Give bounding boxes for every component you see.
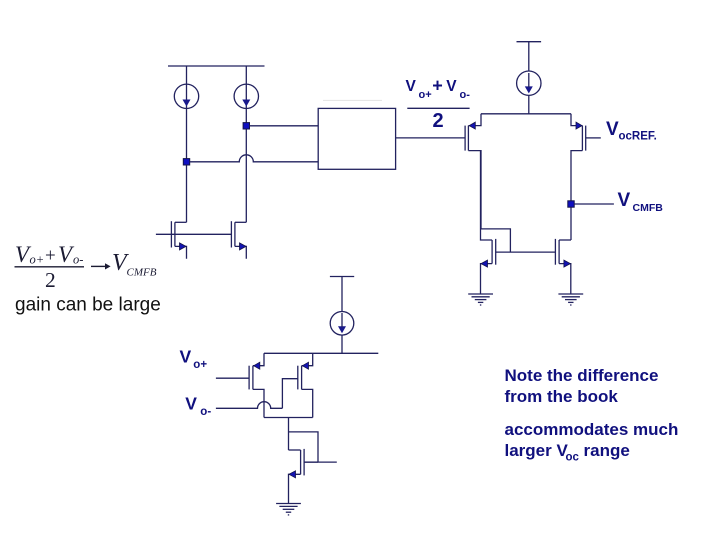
formula fraction bar	[15, 266, 85, 268]
svg-text:o-: o-	[200, 406, 211, 418]
transistor M6 drain lead	[559, 239, 571, 241]
transistor M6 source arrow	[564, 260, 571, 267]
wire VDD T-bar middle circuit	[330, 277, 354, 312]
transistor M2 gate bar	[230, 221, 232, 247]
wire M4 gate to VocREF	[586, 137, 601, 139]
svg-text:V: V	[180, 346, 192, 366]
transistor M4 source arrow	[576, 122, 582, 129]
wire node B to box lower input with hop over right branch	[190, 155, 319, 162]
wire shared gate line M1 M2	[156, 233, 232, 235]
wire follower drain rail	[264, 417, 313, 419]
wire Vo- input with hop over M7 drain	[216, 402, 283, 409]
transistor M6 source lead	[559, 264, 571, 294]
wire shared gate line M5 M6	[496, 251, 556, 253]
wire diff pair source rail	[481, 113, 571, 115]
transistor M7 drain lead	[253, 389, 264, 417]
ground G1	[468, 294, 493, 305]
transistor M8 source lead	[302, 353, 313, 365]
wire I4 to follower rail	[341, 335, 343, 353]
transistor M7 source arrow	[254, 362, 260, 369]
ground G3	[276, 504, 301, 515]
svg-text:+: +	[45, 246, 56, 267]
current source I3	[517, 71, 541, 95]
transistor M3 source arrow	[469, 122, 475, 129]
faint artifact line above box	[323, 99, 382, 101]
svg-text:o-: o-	[73, 253, 83, 267]
formula arrow	[91, 263, 111, 269]
transistor M5 gate bar	[495, 239, 497, 265]
transistor M1 source arrow	[180, 243, 187, 250]
wire node A to averaging box top input	[250, 125, 319, 127]
wire box output to M3 gate	[396, 137, 466, 139]
transistor M9 channel	[300, 450, 302, 474]
transistor M7 gate bar	[248, 366, 250, 390]
svg-text:V: V	[606, 119, 619, 140]
wire follower source rail	[264, 352, 378, 354]
transistor M5 channel	[491, 240, 493, 264]
transistor M4 drain lead	[571, 151, 582, 240]
label VocREF	[606, 119, 657, 143]
transistor M9 gate bar	[303, 449, 305, 476]
label fraction numerator Vo+ + Vo-	[406, 76, 471, 102]
transistor M1 source lead	[175, 246, 187, 258]
svg-text:V: V	[618, 190, 631, 211]
wire rail to M9 drain	[288, 418, 290, 451]
transistor M5 drain lead	[481, 151, 493, 240]
node B junction square	[183, 159, 189, 165]
transistor M9 source arrow	[289, 471, 296, 478]
transistor M5 source lead	[481, 264, 493, 294]
svg-text:V: V	[406, 78, 417, 95]
current source I2	[234, 84, 258, 108]
svg-text:Note the difference: Note the difference	[505, 366, 659, 385]
transistor M6 channel	[558, 240, 560, 264]
svg-text:V: V	[185, 394, 197, 414]
transistor M8 source arrow	[302, 362, 308, 369]
node A junction square	[243, 123, 249, 129]
transistor M7 channel	[252, 366, 254, 390]
svg-text:larger V: larger V	[505, 441, 569, 460]
svg-text:o-: o-	[460, 89, 471, 101]
transistor M2 drain lead	[235, 221, 246, 223]
fraction bar Vo+ plus Vo- over 2	[407, 107, 469, 109]
wire Vo+ input to M7 gate	[216, 377, 249, 379]
transistor M6 gate bar	[554, 239, 556, 265]
transistor M3 drain lead	[468, 151, 481, 229]
svg-text:V: V	[446, 78, 457, 95]
wire M5 diode connection loop	[481, 229, 511, 252]
svg-text:o+: o+	[419, 89, 432, 101]
transistor M7 source lead	[253, 353, 264, 365]
svg-text:CMFB: CMFB	[127, 267, 157, 279]
svg-text:oc: oc	[566, 452, 580, 464]
wire M8 gate jog to Vo- line	[282, 379, 297, 409]
transistor M2 source lead	[235, 246, 246, 258]
transistor M3 source lead	[468, 114, 481, 126]
transistor M4 gate bar	[585, 126, 587, 151]
current source I1	[174, 84, 198, 108]
wire left branch vertical	[186, 66, 188, 222]
svg-text:o+: o+	[30, 253, 45, 267]
svg-text:2: 2	[45, 268, 56, 292]
svg-text:ocREF.: ocREF.	[619, 131, 657, 143]
transistor M9 drain lead	[289, 449, 301, 451]
wire I3 to diff pair rail	[528, 95, 530, 113]
transistor M2 source arrow	[240, 243, 247, 250]
svg-text:+: +	[432, 76, 443, 96]
wire M9 gate stub right	[304, 461, 337, 463]
transistor M5 source arrow	[481, 260, 488, 267]
svg-text:range: range	[584, 441, 630, 460]
transistor M4 channel	[581, 126, 583, 151]
svg-text:gain can be large: gain can be large	[15, 295, 161, 316]
note text block	[505, 366, 679, 463]
transistor M1 drain lead	[175, 221, 187, 223]
transistor M1 channel	[174, 222, 176, 246]
svg-text:CMFB: CMFB	[633, 202, 664, 214]
transistor M1 gate bar	[170, 221, 172, 247]
wire VDD rail left circuit	[168, 65, 265, 67]
wire VDD T-bar right circuit	[517, 42, 542, 71]
current source I4	[330, 312, 354, 336]
wire node C to VCMFB label	[574, 203, 614, 205]
transistor M3 channel	[467, 126, 469, 151]
svg-text:from the book: from the book	[505, 387, 619, 406]
formula average equation serif	[15, 242, 157, 292]
transistor M2 channel	[234, 222, 236, 246]
label VCMFB	[618, 190, 664, 214]
ground G2	[558, 294, 583, 305]
svg-text:o+: o+	[193, 359, 207, 371]
svg-text:accommodates much: accommodates much	[505, 420, 679, 439]
transistor M8 channel	[301, 366, 303, 390]
transistor M3 gate bar	[464, 126, 466, 151]
transistor M8 drain lead	[302, 389, 313, 417]
wire M9 diode connection loop	[289, 432, 319, 462]
label Vo+	[180, 346, 208, 371]
transistor M9 source lead	[289, 474, 301, 503]
wire right branch vertical	[245, 66, 247, 222]
averaging box	[318, 108, 395, 169]
svg-text:2: 2	[433, 110, 444, 132]
node C junction square VCMFB tap	[568, 201, 574, 207]
transistor M4 source lead	[571, 114, 582, 126]
label Vo-	[185, 394, 211, 418]
transistor M8 gate bar	[297, 366, 299, 390]
